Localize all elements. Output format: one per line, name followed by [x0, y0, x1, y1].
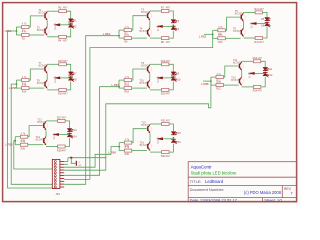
LED D1 [68, 19, 74, 22]
transistor T2 [44, 27, 50, 36]
wire emitter-collector join [149, 20, 151, 28]
svg-text:R10: R10 [218, 41, 223, 44]
wire common net [68, 157, 106, 159]
wire [211, 84, 216, 86]
svg-text:4R7: 4R7 [63, 93, 68, 96]
wire [213, 29, 218, 31]
svg-text:BC547: BC547 [139, 30, 147, 33]
wire LED mid stub [257, 23, 267, 25]
svg-text:Stadi pilota LED bicolore: Stadi pilota LED bicolore [191, 171, 238, 176]
node VLED arrow block 1 [53, 23, 60, 26]
node input junction block 3 [212, 33, 214, 35]
wire bottom rail right [66, 28, 70, 36]
svg-text:4R7: 4R7 [166, 7, 171, 10]
svg-text:4.7k: 4.7k [22, 23, 27, 26]
wire LED mid stub [59, 134, 69, 136]
LED D4 [171, 26, 177, 30]
LED D15 [171, 132, 177, 135]
wire base lower [224, 84, 239, 86]
svg-text:VLED: VLED [157, 25, 160, 32]
wire top rail right [66, 11, 70, 18]
wire net L.R$8 run [64, 81, 211, 170]
node VLED arrow block 7 [52, 133, 59, 136]
svg-text:4R7: 4R7 [259, 8, 264, 11]
svg-text:D13: D13 [72, 129, 77, 132]
wire bottom rail right [169, 31, 173, 38]
svg-text:L.R$5: L.R$5 [5, 142, 13, 146]
wire input join [118, 30, 120, 38]
wire bottom rail [150, 89, 162, 91]
wire base upper [28, 126, 43, 137]
wire emitter-collector join [243, 22, 245, 28]
wire bottom rail [47, 89, 59, 91]
resistor R3 4R7 [58, 7, 68, 13]
wire base lower [132, 150, 147, 152]
wire [119, 142, 124, 144]
resistor R25 4.7k [20, 132, 28, 142]
wire top rail right [65, 121, 69, 128]
svg-text:4R7: 4R7 [62, 116, 67, 119]
junction LED mid [69, 133, 71, 135]
wire bottom rail [150, 151, 162, 153]
svg-text:BC547: BC547 [235, 13, 243, 16]
svg-text:AquaContr: AquaContr [191, 165, 213, 170]
svg-text:4.7k: 4.7k [22, 76, 27, 79]
resistor R2 4.7k [22, 31, 30, 41]
svg-text:BC547: BC547 [141, 65, 149, 68]
svg-text:G: G [78, 162, 80, 164]
resistor R24 4R7 [253, 85, 263, 92]
resistor R32 4R7 [161, 151, 171, 158]
wire stub L.R$3 [204, 33, 213, 35]
wire base lower [29, 87, 44, 89]
resistor R27 4R7 [57, 116, 67, 122]
svg-text:R30: R30 [125, 153, 130, 156]
resistor R13 4.7k [22, 76, 30, 86]
LED D14 [67, 134, 73, 139]
wire net L.R$3 run [64, 34, 213, 179]
node input junction block 2 [118, 35, 120, 37]
wire stub L.R$8 [203, 80, 211, 82]
wire LED mid stub [60, 77, 70, 79]
svg-text:BC547: BC547 [141, 124, 149, 127]
wire base lower [28, 144, 43, 146]
wire [16, 79, 21, 81]
wire [213, 37, 218, 39]
transistor T8 [44, 80, 50, 89]
wire bottom rail right [263, 27, 267, 38]
svg-text:Document Number:: Document Number: [190, 187, 225, 192]
transistor T7 [44, 65, 50, 74]
LED D13 [67, 129, 73, 132]
svg-text:R14: R14 [22, 91, 27, 94]
svg-text:4.7k: 4.7k [125, 138, 130, 141]
transistor T13 [42, 121, 48, 130]
svg-text:R22: R22 [216, 88, 221, 91]
node input junction block 5 [118, 86, 120, 88]
LED D16 [171, 139, 177, 144]
resistor R11 4R7 [254, 8, 264, 14]
svg-text:L.R$8: L.R$8 [201, 82, 209, 86]
LED D12 [263, 73, 269, 78]
svg-text:L.R$6: L.R$6 [9, 86, 17, 90]
resistor R15 4R7 [58, 60, 68, 66]
wire top rail [47, 63, 59, 65]
svg-text:4.7k: 4.7k [22, 84, 27, 87]
wire top rail right [169, 124, 173, 131]
LED D10 [171, 77, 177, 82]
svg-text:4.7k: 4.7k [124, 34, 129, 37]
svg-text:4.7k: 4.7k [21, 140, 26, 143]
wire [15, 144, 20, 146]
ground GND [76, 161, 82, 167]
svg-text:BC547: BC547 [141, 11, 149, 14]
wire top rail [47, 10, 59, 12]
wire bottom rail [46, 146, 58, 148]
wire LED mid stub [60, 24, 70, 26]
svg-text:Sheet: 1/1: Sheet: 1/1 [264, 197, 283, 202]
svg-text:R26: R26 [21, 147, 26, 150]
resistor R14 4.7k [22, 84, 30, 94]
resistor R7 4R7 [161, 7, 171, 13]
wire base upper [225, 17, 240, 30]
wire top rail right [169, 64, 173, 71]
wire bottom rail right [65, 138, 69, 146]
wire input join [14, 137, 16, 145]
resistor R30 4.7k [124, 146, 132, 156]
wire net L.R$4 run [64, 147, 119, 168]
LED D7 [68, 72, 74, 75]
svg-text:L.R$3: L.R$3 [199, 34, 207, 38]
svg-text:VLED: VLED [251, 22, 254, 29]
transistor T10 [146, 80, 152, 89]
resistor R17 4.7k [124, 76, 132, 86]
node VLED arrow block 2 [156, 25, 163, 28]
resistor R20 4R7 [161, 88, 171, 95]
wire base lower [132, 87, 147, 89]
wire emitter-collector join [241, 71, 243, 77]
wire bottom rail right [66, 82, 70, 90]
wire bottom rail [47, 36, 59, 38]
wire emitter-collector join [149, 133, 151, 142]
LED D3 [171, 20, 177, 23]
node input junction block 1 [16, 30, 18, 32]
svg-text:D15: D15 [176, 132, 181, 135]
wire LED mid stub [163, 138, 173, 140]
node VLED arrow block 6 [248, 72, 255, 75]
wire [15, 136, 20, 138]
wire [119, 29, 124, 31]
resistor R28 4R7 [57, 145, 67, 152]
svg-text:4.7k: 4.7k [216, 81, 221, 84]
resistor R12 4R7 [254, 37, 264, 44]
node VLED arrow block 4 [53, 77, 60, 80]
node VLED arrow block 8 [156, 137, 163, 140]
svg-text:D10: D10 [176, 79, 181, 82]
wire LED mid stub [255, 72, 265, 74]
resistor R8 4R7 [161, 37, 171, 44]
junction LED mid [264, 71, 266, 73]
svg-text:L.R$7: L.R$7 [112, 83, 120, 87]
svg-text:BC547: BC547 [233, 30, 241, 33]
title block frame [188, 162, 296, 202]
node input junction block 8 [118, 146, 120, 148]
transistor T9 [146, 65, 152, 74]
svg-text:BC547: BC547 [39, 11, 47, 14]
resistor R31 4R7 [161, 120, 171, 126]
svg-text:BC547: BC547 [37, 121, 45, 124]
LED D8 [68, 77, 74, 82]
svg-text:4.7k: 4.7k [21, 132, 26, 135]
wire [16, 26, 21, 28]
transistor T16 [146, 142, 152, 151]
wire top rail right [261, 61, 265, 67]
svg-text:4R7: 4R7 [166, 93, 171, 96]
wire bottom rail [150, 37, 162, 39]
wire base upper [224, 66, 239, 77]
svg-text:BC547: BC547 [39, 65, 47, 68]
svg-text:VLED: VLED [249, 72, 252, 79]
transistor T15 [146, 124, 152, 133]
svg-text:4.7k: 4.7k [124, 76, 129, 79]
svg-text:JP1: JP1 [56, 192, 61, 196]
svg-text:4R7: 4R7 [166, 60, 171, 63]
wire top rail [242, 60, 254, 62]
svg-text:VLED: VLED [54, 76, 57, 83]
wire base upper [132, 129, 147, 143]
svg-text:4R7: 4R7 [62, 149, 67, 152]
node input junction block 7 [14, 140, 16, 142]
svg-text:Date: 23/03/2008 23.52.17: Date: 23/03/2008 23.52.17 [190, 197, 238, 202]
wire [211, 76, 216, 78]
transistor T6 [240, 28, 246, 37]
svg-text:BC547: BC547 [37, 82, 45, 85]
junction LED mid [173, 137, 175, 139]
wire input join [118, 80, 120, 88]
svg-text:4R7: 4R7 [63, 7, 68, 10]
resistor R29 4.7k [124, 138, 132, 148]
svg-text:4.7k: 4.7k [218, 34, 223, 37]
svg-text:VLED: VLED [54, 23, 57, 30]
svg-text:TITLE:: TITLE: [190, 179, 202, 184]
wire top rail right [263, 12, 267, 17]
svg-text:4R7: 4R7 [258, 90, 263, 93]
wire [16, 87, 21, 89]
resistor R19 4R7 [161, 60, 171, 66]
wire emitter-collector join [45, 130, 47, 136]
svg-text:BC547: BC547 [233, 62, 241, 65]
wire [119, 87, 124, 89]
wire input join [210, 77, 212, 85]
svg-text:4R7: 4R7 [258, 57, 263, 60]
svg-text:D16: D16 [176, 141, 181, 144]
wire base lower [29, 34, 44, 36]
transistor T3 [146, 11, 152, 20]
wire emitter-collector join [46, 74, 48, 80]
node input junction block 6 [210, 80, 212, 82]
wire base lower [132, 37, 147, 39]
wire [67, 158, 69, 162]
resistor R5 4.7k [124, 26, 132, 36]
svg-text:BC547: BC547 [140, 144, 148, 147]
wire input join [118, 143, 120, 151]
wire base upper [29, 69, 44, 80]
svg-text:VLED: VLED [53, 133, 56, 140]
junction common [70, 157, 72, 159]
wire base upper [132, 69, 147, 80]
wire LED mid stub [163, 25, 173, 27]
wire input join [15, 80, 17, 88]
node input junction block 4 [16, 83, 18, 85]
svg-text:LedBoard: LedBoard [205, 179, 224, 184]
svg-text:BC547: BC547 [139, 82, 147, 85]
wire [119, 150, 124, 152]
resistor R23 4R7 [253, 57, 263, 63]
wire emitter-collector join [46, 21, 48, 27]
svg-text:4R7: 4R7 [63, 40, 68, 43]
node VLED arrow block 5 [156, 77, 163, 80]
wire net L.R$2 run [64, 36, 119, 185]
resistor R26 4.7k [20, 140, 28, 150]
resistor R22 4.7k [216, 81, 224, 91]
svg-text:4.7k: 4.7k [218, 26, 223, 29]
svg-text:4R7: 4R7 [166, 155, 171, 158]
wire net L.R$6 run [11, 84, 52, 184]
transistor T14 [42, 136, 48, 145]
LED D2 [68, 24, 74, 28]
wire LED mid stub [163, 77, 173, 79]
resistor R6 4.7k [124, 34, 132, 44]
wire bottom rail right [261, 77, 265, 87]
wire top rail [150, 10, 162, 12]
LED D9 [171, 72, 177, 75]
svg-text:R18: R18 [124, 91, 129, 94]
resistor R9 4.7k [218, 26, 226, 36]
resistor R18 4.7k [124, 84, 132, 94]
wire input join [212, 30, 214, 38]
wire pin2 stub [64, 163, 68, 165]
wire top rail [244, 11, 256, 13]
wire top rail [46, 120, 58, 122]
LED D5 [265, 18, 271, 21]
wire top rail [150, 123, 162, 125]
wire base lower [225, 37, 240, 39]
svg-text:ND: ND [78, 165, 82, 167]
connector JP1 [52, 159, 64, 195]
svg-text:4R7: 4R7 [166, 41, 171, 44]
junction LED mid [266, 22, 268, 24]
wire [119, 37, 124, 39]
svg-text:(c) PDO Masia 2008: (c) PDO Masia 2008 [244, 190, 282, 195]
wire top rail right [169, 11, 173, 19]
svg-text:4.7k: 4.7k [216, 73, 221, 76]
resistor R10 4.7k [218, 34, 226, 44]
junction LED mid [70, 76, 72, 78]
svg-text:D12: D12 [268, 74, 273, 77]
LED D6 [265, 23, 271, 27]
wire bottom rail [242, 86, 254, 88]
junction LED mid [173, 76, 175, 78]
resistor R1 4.7k [22, 23, 30, 33]
svg-text:4.7k: 4.7k [22, 31, 27, 34]
svg-text:VLED: VLED [157, 76, 160, 83]
svg-text:BC547: BC547 [231, 79, 239, 82]
svg-text:D14: D14 [72, 135, 77, 138]
svg-text:4.7k: 4.7k [124, 84, 129, 87]
junction LED mid [70, 23, 72, 25]
resistor R4 4R7 [58, 35, 68, 42]
svg-text:4.7k: 4.7k [125, 146, 130, 149]
wire pin1 stub [64, 161, 68, 163]
wire net L.R$7 run [64, 87, 119, 176]
wire top rail [150, 63, 162, 65]
svg-text:4R7: 4R7 [166, 120, 171, 123]
svg-text:4R7: 4R7 [259, 41, 264, 44]
wire [119, 79, 124, 81]
svg-text:BC547: BC547 [37, 29, 45, 32]
wire input join [15, 27, 17, 35]
schematic frame border [3, 3, 297, 202]
wire top rail right [66, 64, 70, 71]
transistor T1 [44, 12, 50, 21]
wire emitter-collector join [149, 74, 151, 80]
wire net L.R$5 run [14, 141, 53, 169]
node VLED arrow block 3 [250, 22, 257, 25]
wire [16, 34, 21, 36]
wire bottom rail right [169, 82, 173, 90]
wire to ground [71, 158, 76, 164]
transistor T5 [240, 13, 246, 22]
svg-text:4R7: 4R7 [63, 60, 68, 63]
svg-text:BC547: BC547 [36, 139, 44, 142]
wire base upper [132, 16, 147, 30]
wire net LR$1 run [8, 31, 53, 188]
wire bottom rail right [169, 144, 173, 152]
wire bottom rail [244, 37, 256, 39]
junction LED mid [173, 24, 175, 26]
transistor T11 [238, 62, 244, 71]
transistor T4 [146, 28, 152, 37]
svg-text:D11: D11 [268, 68, 273, 71]
transistor T12 [238, 77, 244, 86]
resistor R21 4.7k [216, 73, 224, 83]
wire base upper [29, 16, 44, 27]
svg-text:4.7k: 4.7k [124, 26, 129, 29]
resistor R16 4R7 [58, 88, 68, 95]
svg-text:VLED: VLED [157, 137, 160, 144]
LED D11 [263, 67, 269, 70]
